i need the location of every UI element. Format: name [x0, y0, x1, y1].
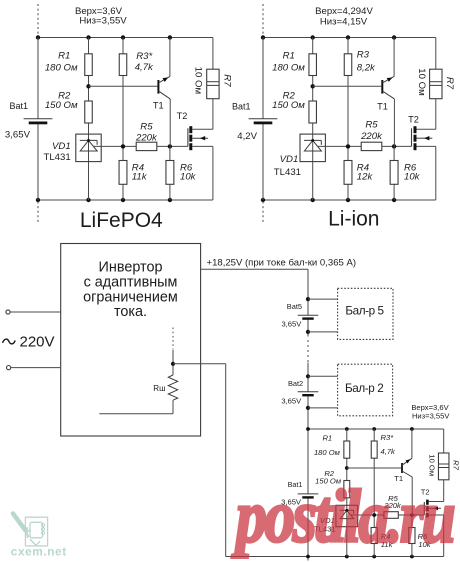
label R6 designator (LiFePO4 circuit) [180, 163, 193, 174]
label header Низ=3,55V (balancer 1 detail) [412, 412, 450, 421]
wire dashed battery stack continuation top (Li-ion circuit) [262, 4, 264, 36]
wire base of T1 (Li-ion circuit) [313, 85, 382, 87]
watermark postila.ru [232, 475, 454, 558]
svg-text:T2: T2 [408, 115, 419, 125]
svg-text:R7: R7 [444, 77, 455, 90]
svg-text:VD1: VD1 [52, 141, 71, 152]
label R7 value 10 Ом rotated (balancer 1 detail) [428, 454, 437, 476]
transistor T1 (balancer 1 detail) [401, 429, 412, 515]
svg-text:4,7k: 4,7k [381, 447, 397, 456]
label header Низ=3,55V (LiFePO4 circuit) [79, 16, 127, 27]
label R4 designator (LiFePO4 circuit) [132, 163, 144, 174]
label R7 value 10 Ом rotated (Li-ion circuit) [416, 68, 427, 95]
svg-text:11k: 11k [132, 171, 148, 182]
label T2 designator (Li-ion circuit) [408, 115, 419, 125]
node junction dots top rail (LiFePO4 circuit) [36, 35, 172, 39]
wire base of T1 (balancer 1 detail) [347, 467, 401, 469]
svg-text:VD1: VD1 [280, 154, 299, 165]
wire dashed battery stack continuation top (LiFePO4 circuit) [37, 4, 39, 36]
svg-text:220V: 220V [20, 333, 55, 350]
label R3 designator (Li-ion circuit) [357, 50, 370, 61]
svg-text:Bat2: Bat2 [288, 379, 303, 388]
label header Верх=3,6V (balancer 1 detail) [411, 403, 449, 412]
label R1 value 180 Ом (balancer 1 detail) [314, 448, 341, 457]
resistor R3 (balancer 1 detail) [371, 441, 377, 458]
node junction dots top rail (Li-ion circuit) [261, 35, 397, 39]
resistor R6 (LiFePO4 circuit) [166, 161, 174, 185]
shunt regulator VD1 TL431 (balancer 1 detail) [336, 505, 358, 526]
label Бал-р 2 [345, 382, 383, 395]
svg-text:postila.ru: postila.ru [232, 475, 454, 558]
wire TL431 ref to R5 (Li-ion circuit) [317, 145, 361, 147]
label title LiFePO4 (LiFePO4 circuit) [80, 209, 163, 232]
transistor T1 (Li-ion circuit) [381, 38, 394, 147]
label R1 designator (balancer 1 detail) [322, 433, 332, 442]
resistor R6 (Li-ion circuit) [390, 161, 398, 185]
label R5 value 220k (LiFePO4 circuit) [135, 133, 158, 144]
label T1 designator (Li-ion circuit) [377, 102, 388, 112]
label +18,25V output [207, 257, 357, 268]
label R3 value 4,7k (LiFePO4 circuit) [135, 62, 154, 73]
resistor R4 (LiFePO4 circuit) [119, 161, 127, 185]
wire top rail to R7 (LiFePO4 circuit) [212, 38, 214, 70]
resistor R7 (Li-ion circuit) [430, 69, 442, 99]
svg-text:+18,25V (при токе бал-ки 0,365: +18,25V (при токе бал-ки 0,365 А) [207, 257, 357, 268]
wire R6 column (Li-ion circuit) [393, 146, 395, 200]
wire R7 to T2 drain (balancer 1 detail) [429, 480, 444, 502]
wire stack bus upper [307, 269, 309, 336]
resistor R1 (Li-ion circuit) [309, 54, 317, 76]
label ~ 220V mains [3, 333, 55, 350]
label Bat5 3,65V [281, 320, 302, 329]
label T2 designator (balancer 1 detail) [421, 488, 430, 497]
label R2 designator (Li-ion circuit) [283, 91, 296, 102]
battery Bat1 (Li-ion circuit) [249, 119, 278, 125]
resistor R2 (balancer 1 detail) [344, 481, 350, 498]
svg-text:R5: R5 [140, 122, 153, 133]
label R5 designator (balancer 1 detail) [388, 494, 398, 503]
label Bat1 designator (Li-ion circuit) [232, 102, 251, 112]
label R2 value 150 Ом (LiFePO4 circuit) [45, 100, 78, 111]
label Bat2 [288, 379, 303, 388]
wire top rail (LiFePO4 circuit) [38, 37, 213, 39]
wire battery column (Li-ion circuit) [262, 38, 264, 201]
label R7 value 10 Ом rotated (LiFePO4 circuit) [193, 67, 204, 94]
wire R1 column (balancer 1 detail) [346, 429, 348, 557]
label R4 designator (balancer 1 detail) [381, 532, 391, 541]
svg-text:TL431: TL431 [274, 167, 301, 178]
label Bat1 designator (LiFePO4 circuit) [9, 101, 28, 111]
svg-text:R7: R7 [222, 74, 233, 87]
label R5 designator (LiFePO4 circuit) [140, 122, 153, 133]
node Bat5 top junction [306, 297, 310, 301]
wire Bat5 bottom to balancer 5 [308, 331, 338, 333]
resistor R7 (LiFePO4 circuit) [207, 69, 219, 99]
label R6 value 10k (LiFePO4 circuit) [180, 171, 197, 182]
label cxem.net [11, 544, 67, 558]
svg-text:R3*: R3* [136, 51, 152, 62]
label R6 value 10k (balancer 1 detail) [418, 540, 431, 549]
svg-text:Низ=3,55V: Низ=3,55V [79, 16, 127, 27]
node ref-T1 emitter junction (balancer 1 detail) [410, 513, 414, 517]
wire top rail (Li-ion circuit) [263, 37, 436, 39]
svg-text:R1: R1 [322, 433, 332, 442]
label R6 designator (Li-ion circuit) [404, 163, 417, 174]
label R1 designator (Li-ion circuit) [283, 51, 295, 62]
label R7 designator rotated (LiFePO4 circuit) [222, 74, 233, 87]
svg-text:4,7k: 4,7k [135, 62, 154, 73]
svg-text:220k: 220k [135, 133, 158, 144]
label Bat2 3,65V [281, 397, 302, 406]
svg-text:R3*: R3* [381, 433, 395, 442]
svg-text:10k: 10k [404, 171, 421, 182]
resistor R7 (balancer 1 detail) [438, 453, 449, 480]
label Bat1 value 4,2V (Li-ion circuit) [237, 131, 257, 142]
svg-text:Бал-р 5: Бал-р 5 [345, 305, 384, 318]
terminal input 2 [7, 366, 11, 370]
node Bat2 bottom junction [306, 406, 310, 410]
wire dashed battery stack continuation bottom (LiFePO4 circuit) [37, 202, 39, 225]
svg-text:R1: R1 [283, 51, 295, 62]
resistor R1 (LiFePO4 circuit) [85, 54, 93, 76]
balancer 5 dashed box [338, 288, 393, 339]
mosfet T2 (Li-ion circuit) [412, 126, 433, 150]
svg-text:T2: T2 [177, 111, 188, 121]
label T2 designator (LiFePO4 circuit) [177, 111, 188, 121]
wire Bat2 bottom to balancer 2 [308, 407, 338, 409]
wire stack bus lower [307, 429, 309, 557]
svg-text:Li-ion: Li-ion [328, 208, 379, 231]
svg-text:Низ=3,55V: Низ=3,55V [412, 412, 450, 421]
wire shunt junction to stack bottom [173, 364, 226, 557]
node junction dots bottom rail (LiFePO4 circuit) [36, 198, 172, 202]
svg-text:180 Ом: 180 Ом [272, 63, 305, 74]
wire input 2 [11, 367, 61, 369]
label R3 designator (balancer 1 detail) [381, 433, 395, 442]
node ref-R4 junction (LiFePO4 circuit) [121, 144, 125, 148]
battery Bat2 [298, 392, 319, 397]
wire top rail to R7 (balancer 1 detail) [443, 429, 445, 453]
label R7 designator rotated (Li-ion circuit) [444, 77, 455, 90]
label Инвертор text [83, 260, 178, 321]
label header Верх=3,6V (LiFePO4 circuit) [75, 6, 123, 17]
svg-text:220k: 220k [360, 131, 383, 142]
label VD1 designator (Li-ion circuit) [280, 154, 299, 165]
wire R1 column (Li-ion circuit) [312, 38, 314, 201]
cxem.net logo [13, 514, 48, 546]
wire shunt bottom [99, 400, 173, 414]
resistor R4 (balancer 1 detail) [371, 528, 377, 544]
wire R5 to T2 gate (balancer 1 detail) [398, 514, 424, 516]
svg-text:150 Ом: 150 Ом [272, 100, 305, 111]
svg-text:150 Ом: 150 Ом [45, 100, 78, 111]
label R1 value 180 Ом (LiFePO4 circuit) [45, 63, 78, 74]
label R3 designator (LiFePO4 circuit) [136, 51, 152, 62]
node junction dots top rail (balancer 1 detail) [306, 427, 414, 431]
node Bat5 bottom junction [306, 330, 310, 334]
label Bat1 value 3,65V (balancer 1 detail) [281, 498, 302, 507]
label R4 value 12k (Li-ion circuit) [357, 171, 374, 182]
resistor R3 (Li-ion circuit) [344, 54, 352, 76]
label R6 designator (balancer 1 detail) [418, 532, 428, 541]
svg-text:Инвертор: Инвертор [99, 260, 163, 276]
label VD1 designator (LiFePO4 circuit) [52, 141, 71, 152]
label R4 value 11k (LiFePO4 circuit) [132, 171, 148, 182]
wire top rail to R7 (Li-ion circuit) [435, 38, 437, 70]
balancer 2 dashed box [338, 364, 393, 416]
mosfet T2 (LiFePO4 circuit) [188, 126, 208, 150]
svg-text:3,65V: 3,65V [281, 320, 302, 329]
resistor R4 (Li-ion circuit) [344, 161, 352, 185]
wire R3-R4 column (LiFePO4 circuit) [122, 38, 124, 201]
svg-text:T1: T1 [153, 101, 164, 111]
wire bottom rail (LiFePO4 circuit) [38, 199, 213, 201]
label VD1 designator (balancer 1 detail) [320, 516, 335, 525]
wire R6 column (balancer 1 detail) [411, 515, 413, 557]
label R4 value 11k (balancer 1 detail) [381, 540, 394, 549]
label R3 value 8,2k (Li-ion circuit) [357, 63, 376, 74]
svg-text:R1: R1 [58, 51, 70, 62]
label VD1 value TL431 (LiFePO4 circuit) [43, 152, 70, 163]
svg-text:180 Ом: 180 Ом [314, 448, 341, 457]
wire stack bus dashed bottom [307, 559, 309, 562]
label R5 value 220k (Li-ion circuit) [360, 131, 383, 142]
svg-text:TL431: TL431 [43, 152, 70, 163]
label Бал-р 5 [345, 305, 384, 318]
svg-text:12k: 12k [357, 171, 374, 182]
label R7 designator rotated (balancer 1 detail) [452, 460, 460, 470]
node ref-T1 emitter junction (Li-ion circuit) [392, 144, 396, 148]
node ref-R4 junction (Li-ion circuit) [346, 144, 350, 148]
svg-text:cxem.net: cxem.net [11, 544, 67, 558]
mosfet T2 (balancer 1 detail) [424, 500, 441, 518]
node shunt junction [171, 362, 175, 366]
svg-text:R5: R5 [365, 119, 378, 130]
wire R5 to T2 gate (Li-ion circuit) [382, 145, 412, 147]
wire R3-R4 column (Li-ion circuit) [347, 38, 349, 201]
wire T2 source to bottom rail (balancer 1 detail) [429, 515, 444, 557]
svg-text:10 Ом: 10 Ом [193, 67, 204, 94]
svg-text:тока.: тока. [114, 304, 147, 320]
wire dotted shunt feed [172, 328, 174, 350]
wire top rail (balancer 1 detail) [308, 428, 444, 430]
wire R3-R4 column (balancer 1 detail) [373, 429, 375, 557]
wire base of T1 (LiFePO4 circuit) [89, 85, 158, 87]
shunt regulator VD1 TL431 (Li-ion circuit) [300, 134, 325, 162]
label R2 value 150 Ом (balancer 1 detail) [315, 476, 342, 485]
label T1 designator (balancer 1 detail) [394, 474, 403, 483]
battery Bat1 (LiFePO4 circuit) [24, 119, 53, 125]
wire T2 source to bottom rail (LiFePO4 circuit) [192, 146, 213, 200]
svg-text:10 Ом: 10 Ом [416, 68, 427, 95]
wire Bat2 top to balancer 2 [308, 375, 338, 377]
label R1 designator (LiFePO4 circuit) [58, 51, 70, 62]
wire input 1 [10, 311, 61, 313]
label T1 designator (LiFePO4 circuit) [153, 101, 164, 111]
label R1 value 180 Ом (Li-ion circuit) [272, 63, 305, 74]
label VD1 value TL431 (balancer 1 detail) [314, 525, 336, 534]
label Bat1 value 3,65V (LiFePO4 circuit) [5, 130, 31, 141]
label R5 designator (Li-ion circuit) [365, 119, 378, 130]
svg-text:Bat1: Bat1 [9, 101, 28, 111]
node R1-R2 junction (base drive) (balancer 1 detail) [345, 466, 349, 470]
wire +18,25V output [201, 268, 308, 270]
label Bat5 [287, 302, 302, 311]
resistor R6 (balancer 1 detail) [409, 528, 415, 544]
wire R1 column (LiFePO4 circuit) [88, 38, 90, 201]
svg-text:T1: T1 [377, 102, 388, 112]
wire stack bus middle [307, 363, 309, 430]
battery Bat1 (balancer 1 detail) [298, 494, 319, 499]
resistor R3 (LiFePO4 circuit) [119, 54, 127, 76]
wire battery column (LiFePO4 circuit) [37, 38, 39, 201]
node R1-R2 junction (base drive) (LiFePO4 circuit) [86, 84, 90, 88]
wire TL431 ref to R5 (LiFePO4 circuit) [93, 145, 136, 147]
label header Низ=4,15V (Li-ion circuit) [320, 16, 368, 27]
label header Верх=4,294V (Li-ion circuit) [315, 6, 373, 17]
wire T2 source to bottom rail (Li-ion circuit) [417, 146, 436, 200]
svg-text:Bat5: Bat5 [287, 302, 302, 311]
svg-text:Rш: Rш [153, 384, 165, 393]
svg-text:LiFePO4: LiFePO4 [80, 209, 163, 232]
node junction dots bottom rail (balancer 1 detail) [306, 555, 414, 559]
label R2 value 150 Ом (Li-ion circuit) [272, 100, 305, 111]
node R1-R2 junction (base drive) (Li-ion circuit) [311, 84, 315, 88]
label Bat1 designator (balancer 1 detail) [288, 480, 303, 489]
label R2 designator (balancer 1 detail) [324, 469, 334, 478]
transistor T1 (LiFePO4 circuit) [157, 38, 170, 147]
wire stack bus dashed gap [307, 340, 309, 362]
wire R6 column (LiFePO4 circuit) [169, 146, 171, 200]
label title Li-ion (Li-ion circuit) [328, 208, 379, 231]
label R5 value 220k (balancer 1 detail) [383, 501, 402, 510]
battery Bat5 [298, 315, 319, 320]
inverter box [61, 244, 201, 437]
label R6 value 10k (Li-ion circuit) [404, 171, 421, 182]
svg-text:3,65V: 3,65V [281, 397, 302, 406]
wire dashed battery stack continuation bottom (Li-ion circuit) [262, 202, 264, 225]
svg-text:3,65V: 3,65V [5, 130, 31, 141]
label R2 designator (LiFePO4 circuit) [58, 91, 71, 102]
wire R7 to T2 drain (Li-ion circuit) [417, 99, 436, 130]
wire R7 to T2 drain (LiFePO4 circuit) [192, 99, 213, 130]
wire shunt top [172, 350, 174, 376]
resistor R2 (Li-ion circuit) [309, 101, 317, 123]
svg-text:Низ=4,15V: Низ=4,15V [320, 16, 368, 27]
wire R5 to T2 gate (LiFePO4 circuit) [157, 145, 188, 147]
shunt regulator VD1 TL431 (LiFePO4 circuit) [76, 134, 101, 162]
label Rш [153, 384, 165, 393]
wire Bat5 top to balancer 5 [308, 298, 338, 300]
svg-text:10k: 10k [180, 171, 197, 182]
resistor R2 (LiFePO4 circuit) [85, 101, 93, 123]
svg-text:4,2V: 4,2V [237, 131, 257, 142]
svg-text:R3: R3 [357, 50, 370, 61]
node ref-R4 junction (balancer 1 detail) [372, 513, 376, 517]
svg-text:с адаптивным: с адаптивным [84, 275, 178, 291]
node Bat2 top junction [306, 374, 310, 378]
svg-text:8,2k: 8,2k [357, 63, 376, 74]
resistor R5 (balancer 1 detail) [384, 512, 398, 519]
terminal input 1 [6, 310, 10, 314]
svg-text:Бал-р 2: Бал-р 2 [345, 382, 383, 395]
svg-text:R7: R7 [452, 460, 460, 470]
wire bottom rail (balancer 1 detail) [226, 556, 444, 558]
resistor R1 (balancer 1 detail) [344, 441, 350, 458]
node ref-T1 emitter junction (LiFePO4 circuit) [168, 144, 172, 148]
label VD1 value TL431 (Li-ion circuit) [274, 167, 301, 178]
resistor R5 (LiFePO4 circuit) [136, 142, 157, 150]
wire bottom rail (Li-ion circuit) [263, 199, 436, 201]
svg-text:180 Ом: 180 Ом [45, 63, 78, 74]
svg-text:Bat1: Bat1 [232, 102, 251, 112]
label R3 value 4,7k (balancer 1 detail) [381, 447, 397, 456]
wire TL431 ref to R5 (balancer 1 detail) [350, 514, 383, 516]
label R4 designator (Li-ion circuit) [357, 163, 369, 174]
resistor R5 (Li-ion circuit) [361, 142, 382, 150]
resistor Rш zigzag [168, 375, 177, 400]
node junction dots bottom rail (Li-ion circuit) [261, 198, 397, 202]
svg-text:10 Ом: 10 Ом [428, 454, 437, 476]
